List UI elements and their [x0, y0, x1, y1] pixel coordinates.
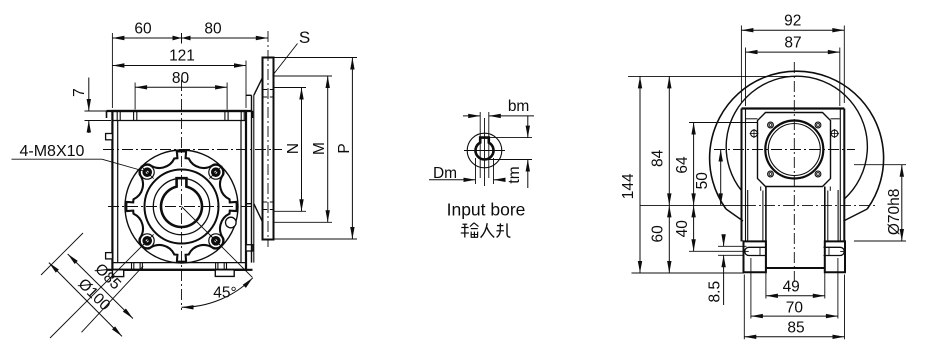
output bore with keyway — [161, 178, 202, 227]
dim 85 ext — [743, 275, 745, 340]
svg-text:Dm: Dm — [433, 165, 457, 182]
dim 49 ext — [765, 270, 767, 299]
svg-text:8.5: 8.5 — [707, 281, 724, 303]
svg-text:144: 144 — [620, 173, 637, 199]
top cover bolt ticks — [133, 111, 135, 121]
flange band fill — [742, 109, 845, 191]
svg-text:S: S — [299, 28, 310, 47]
svg-text:49: 49 — [783, 279, 800, 296]
left foot slot — [745, 247, 766, 255]
svg-text:40: 40 — [674, 220, 691, 238]
dim M ext lines — [274, 75, 333, 77]
dim N ext lines — [274, 87, 307, 89]
left side lug top — [106, 134, 113, 140]
svg-text:45°: 45° — [213, 285, 236, 302]
dim 80 lower line — [135, 86, 227, 88]
mounting face plate — [758, 113, 831, 187]
dim 92 ext — [740, 26, 742, 104]
dim 70 ext — [750, 258, 752, 319]
dim 80 ext lines — [134, 83, 136, 110]
dim 60 ext line left — [111, 33, 113, 108]
face bolt hole 3 (M8) — [140, 234, 154, 248]
bottom plate — [107, 269, 253, 271]
svg-text:4-M8X10: 4-M8X10 — [20, 143, 85, 160]
dim 144 line — [639, 76, 641, 273]
scalloped housing face profile — [126, 151, 236, 261]
body right wall — [843, 109, 845, 242]
top cover plate — [107, 110, 253, 112]
dim 50 line — [720, 150, 722, 206]
neck upper contour — [246, 94, 252, 96]
dim tm ext lines — [490, 137, 532, 139]
dim 40 line — [693, 205, 695, 251]
svg-text:84: 84 — [650, 149, 667, 167]
flange outer circle O100 — [125, 150, 238, 263]
dim 70 line — [751, 315, 838, 317]
svg-text:121: 121 — [169, 48, 195, 65]
input bore with keyway — [476, 138, 494, 160]
flange bolt hole 2 — [815, 122, 821, 128]
dim 92 line — [741, 29, 844, 31]
dim 8.5 line — [723, 237, 725, 247]
svg-text:Ø70h8: Ø70h8 — [886, 189, 903, 236]
caption Chinese (shu ru kong) — [464, 225, 466, 238]
output hub circle — [145, 170, 219, 244]
flange vertical centerline — [267, 31, 269, 247]
dim tm line — [527, 116, 529, 138]
input bore outer circle — [467, 133, 502, 168]
dim P line — [351, 58, 353, 240]
dim 80 top line — [182, 37, 268, 39]
dim 7 line — [88, 78, 90, 112]
svg-text:60: 60 — [650, 225, 667, 243]
dim 85 line — [744, 336, 844, 338]
svg-text:Input bore: Input bore — [447, 200, 526, 220]
dim dia100 line — [49, 263, 122, 337]
body top edge — [742, 107, 845, 109]
svg-text:tm: tm — [506, 166, 523, 183]
dim 84 line — [668, 76, 670, 205]
flange bolt hole 3 — [768, 171, 774, 177]
svg-text:87: 87 — [784, 35, 801, 52]
svg-text:70: 70 — [786, 300, 804, 317]
input axis centerline — [714, 149, 855, 151]
dim dia70h8 ext — [854, 164, 906, 166]
motor flange plate S — [263, 58, 274, 240]
flange hidden tapped hole top — [263, 89, 273, 91]
svg-text:80: 80 — [172, 70, 190, 87]
left chamfer — [726, 209, 743, 221]
neck lower contour — [246, 203, 252, 205]
dim 87 ext — [745, 48, 747, 107]
dim M line — [327, 76, 329, 222]
right side lug bottom — [246, 245, 253, 251]
dim N line — [301, 88, 303, 212]
output bore chamfer circle — [153, 178, 209, 234]
svg-text:bm: bm — [508, 98, 530, 115]
left side lug bottom — [106, 253, 113, 259]
face bolt hole 2 (M8) — [209, 165, 223, 179]
svg-text:80: 80 — [204, 21, 222, 38]
svg-text:M: M — [311, 142, 328, 155]
dim 60 line — [112, 37, 181, 39]
svg-text:85: 85 — [787, 320, 804, 337]
svg-text:7: 7 — [71, 88, 88, 97]
svg-text:60: 60 — [134, 21, 152, 38]
flange bolt hole 4 — [815, 171, 821, 177]
svg-text:64: 64 — [674, 156, 691, 174]
central box — [765, 187, 767, 269]
dim 121 line — [112, 65, 246, 67]
45 deg diagonal line — [182, 207, 253, 278]
lower body fill — [742, 190, 844, 273]
dim 7 ext lines — [85, 110, 112, 112]
bottom foot tab left — [112, 270, 123, 277]
leader 4-M8X10 — [12, 158, 102, 160]
dim dia85 line — [68, 254, 133, 319]
rear face edge lines — [251, 95, 253, 262]
dim bm ext lines — [479, 112, 481, 178]
input flange circle — [765, 121, 823, 179]
right bottom ext line — [632, 272, 745, 274]
dim 40 ext — [689, 250, 744, 252]
axis ext line left — [640, 204, 745, 206]
svg-text:92: 92 — [784, 13, 801, 30]
right chamfer — [844, 209, 868, 221]
left foot — [744, 241, 766, 272]
dim 121 ext right — [245, 61, 247, 109]
face vertical centerline — [181, 80, 183, 310]
dim P ext lines — [274, 57, 358, 59]
output axis centerline — [745, 204, 875, 206]
dim dia70h8 line — [901, 165, 903, 241]
leader S — [273, 44, 298, 76]
side hole right — [831, 130, 838, 137]
oil plug hole — [226, 217, 237, 228]
right view v centerline — [793, 62, 795, 283]
input bore v centerline — [484, 118, 486, 186]
flange corner steps — [746, 118, 758, 120]
dim 60 right line — [668, 205, 670, 273]
svg-text:P: P — [336, 143, 353, 153]
dim Dm line — [429, 179, 476, 181]
flange hidden tapped hole bottom — [263, 201, 273, 203]
diag ext line mid — [50, 242, 146, 338]
face horizontal centerline — [108, 206, 252, 208]
bottom plate bolt ticks — [131, 263, 133, 270]
dim 49 line — [766, 295, 825, 297]
right top ext line — [628, 75, 797, 77]
body left wall — [741, 109, 743, 242]
bottom foot tab right — [215, 270, 234, 277]
diag ext line lower — [82, 266, 144, 332]
body inner wall lines — [117, 121, 119, 263]
input bore h centerline — [464, 150, 505, 152]
dim 87 line — [746, 51, 840, 53]
dim Dm ext lines — [475, 158, 477, 184]
side hole left — [751, 130, 758, 137]
dim 8.5 ext — [718, 245, 747, 247]
worm axis centerline — [103, 149, 282, 151]
right foot slot — [824, 247, 845, 255]
right foot — [825, 241, 845, 272]
svg-text:50: 50 — [694, 172, 711, 190]
housing outer circle arc — [710, 71, 884, 209]
face bolt hole 4 (M8) — [209, 234, 223, 248]
45 deg dimension arc — [182, 278, 253, 308]
dim 64 line — [693, 123, 695, 206]
dim 64 ext — [689, 122, 757, 124]
flange bolt hole 1 — [768, 122, 774, 128]
face bolt hole 1 (M8) — [140, 165, 154, 179]
diag ext line upper — [41, 233, 83, 275]
housing inner circle arc — [726, 76, 867, 199]
worm gearbox side view body outline — [112, 111, 246, 270]
dim bm line — [463, 115, 480, 117]
svg-text:N: N — [285, 143, 302, 154]
